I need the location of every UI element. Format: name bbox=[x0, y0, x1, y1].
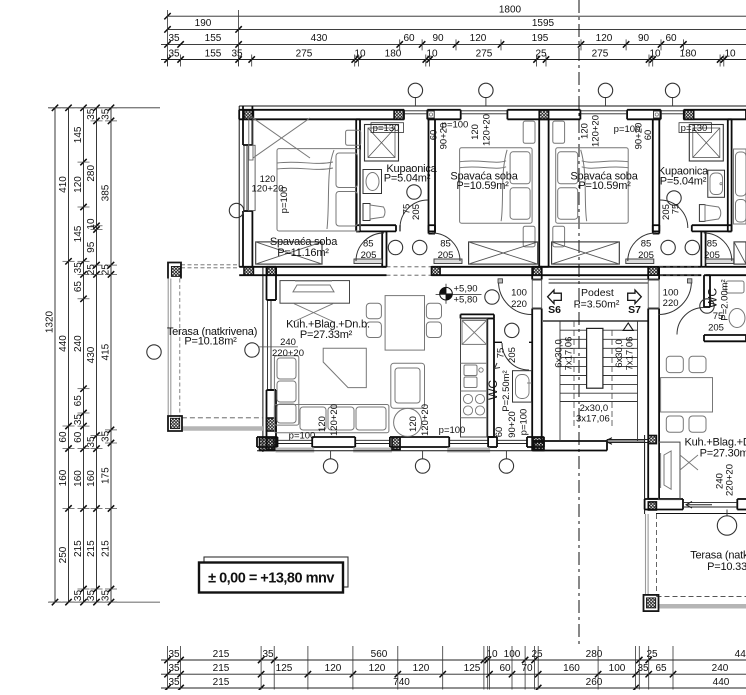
svg-text:100: 100 bbox=[609, 663, 626, 674]
svg-text:35: 35 bbox=[73, 590, 84, 602]
svg-text:120+20: 120+20 bbox=[420, 404, 431, 436]
right unit walls bbox=[645, 275, 746, 513]
svg-text:430: 430 bbox=[311, 33, 328, 44]
svg-text:7x17,06: 7x17,06 bbox=[625, 337, 636, 371]
svg-text:90+20: 90+20 bbox=[507, 411, 518, 438]
svg-text:205: 205 bbox=[708, 323, 724, 334]
column main wall L1 bbox=[244, 267, 253, 275]
svg-text:205: 205 bbox=[661, 204, 672, 220]
svg-text:160: 160 bbox=[58, 469, 69, 486]
wardrobe bed3 bbox=[552, 242, 620, 264]
column main wall stairR bbox=[648, 267, 658, 275]
left exterior wall with bed1 window bbox=[239, 106, 255, 267]
svg-text:205: 205 bbox=[638, 250, 654, 261]
svg-text:35: 35 bbox=[262, 649, 274, 660]
svg-text:35: 35 bbox=[231, 48, 243, 59]
svg-text:6x30,0: 6x30,0 bbox=[614, 339, 625, 368]
svg-text:440: 440 bbox=[713, 677, 730, 688]
svg-text:p=100: p=100 bbox=[279, 187, 290, 214]
svg-text:85: 85 bbox=[363, 238, 374, 249]
kitchen left unit bbox=[461, 318, 488, 437]
svg-text:75: 75 bbox=[496, 348, 507, 359]
bath1 fixtures (shower sink wc) bbox=[363, 125, 399, 221]
column main wall L2 bbox=[267, 267, 276, 275]
svg-text:65: 65 bbox=[73, 395, 84, 407]
svg-text:P=10.59m²: P=10.59m² bbox=[578, 180, 631, 192]
svg-text:S6: S6 bbox=[548, 304, 561, 316]
spot elevation marker bbox=[436, 284, 482, 304]
sofa corner group left bbox=[274, 348, 424, 436]
svg-text:p=100: p=100 bbox=[519, 409, 530, 436]
dining table and chairs right bbox=[661, 356, 713, 432]
svg-text:60: 60 bbox=[73, 431, 84, 443]
arrow S7 bbox=[628, 290, 642, 304]
top band partition walls bbox=[356, 119, 731, 266]
west wall living room with terrace door bbox=[263, 267, 276, 452]
svg-text:85: 85 bbox=[440, 238, 451, 249]
svg-text:P=2.50m²: P=2.50m² bbox=[501, 370, 512, 411]
svg-text:3x17,06: 3x17,06 bbox=[576, 414, 610, 425]
svg-text:P=10.33: P=10.33 bbox=[707, 561, 746, 573]
stair core walls bbox=[532, 267, 659, 514]
svg-text:7x17,06: 7x17,06 bbox=[564, 337, 575, 371]
WC left washbasin bbox=[513, 371, 532, 402]
WC walls left unit bbox=[461, 314, 533, 437]
svg-text:35: 35 bbox=[168, 663, 180, 674]
svg-text:Podest: Podest bbox=[581, 287, 614, 299]
svg-text:220: 220 bbox=[511, 299, 527, 310]
svg-text:280: 280 bbox=[86, 165, 97, 182]
svg-text:120+20: 120+20 bbox=[591, 115, 602, 147]
svg-text:120: 120 bbox=[470, 124, 481, 140]
svg-text:275: 275 bbox=[476, 48, 493, 59]
svg-text:35: 35 bbox=[86, 590, 97, 602]
svg-text:410: 410 bbox=[58, 176, 69, 193]
column main wall stairL bbox=[533, 267, 542, 275]
column stairR bottom2 bbox=[648, 502, 656, 510]
svg-text:120: 120 bbox=[413, 663, 430, 674]
svg-text:35: 35 bbox=[101, 590, 112, 602]
svg-text:120+20: 120+20 bbox=[329, 404, 340, 436]
svg-text:1595: 1595 bbox=[532, 18, 555, 29]
svg-text:205: 205 bbox=[438, 250, 454, 261]
svg-text:90: 90 bbox=[638, 33, 650, 44]
svg-text:35: 35 bbox=[73, 414, 84, 426]
svg-text:440: 440 bbox=[58, 335, 69, 352]
svg-text:1320: 1320 bbox=[45, 310, 56, 333]
svg-text:430: 430 bbox=[86, 346, 97, 363]
svg-text:215: 215 bbox=[213, 677, 230, 688]
svg-text:P=10.59m²: P=10.59m² bbox=[456, 180, 509, 192]
dining table and chairs left bbox=[366, 296, 441, 351]
svg-text:60: 60 bbox=[643, 130, 654, 141]
svg-text:35: 35 bbox=[86, 436, 97, 448]
svg-text:240: 240 bbox=[73, 335, 84, 352]
svg-text:145: 145 bbox=[73, 126, 84, 143]
svg-text:85: 85 bbox=[641, 238, 652, 249]
svg-text:90: 90 bbox=[432, 33, 444, 44]
svg-text:215: 215 bbox=[73, 540, 84, 557]
svg-text:120: 120 bbox=[325, 663, 342, 674]
svg-text:195: 195 bbox=[532, 33, 549, 44]
svg-text:120: 120 bbox=[73, 176, 84, 193]
svg-text:215: 215 bbox=[86, 540, 97, 557]
top dimension chains bbox=[161, 5, 746, 67]
svg-text:215: 215 bbox=[213, 649, 230, 660]
column west wall 1 bbox=[267, 418, 277, 431]
column bath2 window bbox=[684, 110, 694, 119]
svg-text:250: 250 bbox=[58, 546, 69, 563]
svg-text:35: 35 bbox=[86, 108, 97, 120]
svg-text:120: 120 bbox=[470, 33, 487, 44]
column south right bbox=[533, 438, 544, 450]
main interior wall bbox=[239, 267, 746, 275]
svg-text:120: 120 bbox=[596, 33, 613, 44]
svg-text:65: 65 bbox=[655, 663, 667, 674]
svg-text:740: 740 bbox=[393, 677, 410, 688]
svg-text:WC: WC bbox=[486, 380, 500, 400]
svg-text:10: 10 bbox=[86, 218, 97, 230]
svg-text:120: 120 bbox=[317, 416, 328, 432]
column main wall mid bbox=[432, 267, 441, 275]
svg-text:60: 60 bbox=[665, 33, 677, 44]
svg-text:P=10.18m²: P=10.18m² bbox=[184, 335, 237, 347]
svg-text:35: 35 bbox=[101, 108, 112, 120]
svg-text:25: 25 bbox=[535, 48, 547, 59]
svg-text:P=3.50m²: P=3.50m² bbox=[574, 299, 620, 311]
bed 3 bbox=[556, 148, 629, 223]
staircase bbox=[543, 279, 648, 444]
svg-text:35: 35 bbox=[73, 262, 84, 274]
south wall left unit with windows bbox=[257, 437, 544, 453]
terrace right outline bbox=[646, 514, 746, 606]
svg-text:155: 155 bbox=[205, 33, 222, 44]
svg-text:10: 10 bbox=[724, 48, 736, 59]
svg-text:205: 205 bbox=[507, 347, 518, 363]
svg-text:90+20: 90+20 bbox=[438, 123, 449, 150]
nightstands bed2 bbox=[523, 121, 535, 143]
column top-left bbox=[244, 110, 253, 119]
svg-text:70: 70 bbox=[521, 663, 533, 674]
svg-text:120: 120 bbox=[408, 416, 419, 432]
svg-text:65: 65 bbox=[73, 281, 84, 293]
svg-text:385: 385 bbox=[101, 184, 112, 201]
svg-text:± 0,00 = +13,80 mnv: ± 0,00 = +13,80 mnv bbox=[208, 571, 334, 587]
svg-text:75: 75 bbox=[670, 204, 681, 215]
left dimension chains bbox=[45, 105, 161, 606]
svg-text:205: 205 bbox=[361, 250, 377, 261]
svg-text:1800: 1800 bbox=[499, 5, 522, 16]
svg-text:p=100: p=100 bbox=[289, 431, 316, 442]
svg-text:95: 95 bbox=[86, 241, 97, 253]
svg-text:60: 60 bbox=[494, 427, 505, 438]
svg-text:10: 10 bbox=[426, 48, 438, 59]
roller box window bed2 bbox=[428, 111, 434, 118]
svg-text:220+20: 220+20 bbox=[725, 464, 736, 496]
svg-text:260: 260 bbox=[586, 677, 603, 688]
terrace post BL bbox=[168, 416, 182, 431]
svg-text:25: 25 bbox=[101, 264, 112, 276]
svg-text:+5,90: +5,90 bbox=[454, 284, 478, 295]
svg-text:180: 180 bbox=[385, 48, 402, 59]
svg-text:180: 180 bbox=[680, 48, 697, 59]
svg-text:P=5.04m²: P=5.04m² bbox=[384, 173, 431, 185]
svg-text:160: 160 bbox=[86, 470, 97, 487]
svg-text:280: 280 bbox=[586, 649, 603, 660]
svg-text:145: 145 bbox=[73, 225, 84, 242]
svg-text:10: 10 bbox=[354, 48, 366, 59]
svg-text:60: 60 bbox=[58, 431, 69, 443]
svg-text:P=5.04m²: P=5.04m² bbox=[660, 176, 707, 188]
roller box window bed3 bbox=[654, 111, 660, 118]
svg-text:275: 275 bbox=[592, 48, 609, 59]
svg-text:275: 275 bbox=[296, 48, 313, 59]
svg-text:P=27.30m²: P=27.30m² bbox=[700, 448, 746, 460]
svg-text:25: 25 bbox=[646, 649, 658, 660]
wardrobe bed2 bbox=[469, 242, 538, 264]
svg-text:S7: S7 bbox=[628, 304, 641, 316]
svg-text:60: 60 bbox=[499, 663, 511, 674]
terrace left outline bbox=[168, 265, 263, 429]
svg-text:+5,80: +5,80 bbox=[454, 295, 478, 306]
svg-text:35: 35 bbox=[101, 430, 112, 442]
svg-text:100: 100 bbox=[663, 288, 679, 299]
svg-text:10: 10 bbox=[649, 48, 661, 59]
svg-text:35: 35 bbox=[168, 33, 180, 44]
bed 2 bbox=[460, 148, 532, 223]
svg-text:P=11.16m²: P=11.16m² bbox=[277, 247, 329, 259]
svg-text:P=27.33m²: P=27.33m² bbox=[300, 329, 353, 341]
svg-text:560: 560 bbox=[371, 649, 388, 660]
svg-text:175: 175 bbox=[101, 467, 112, 484]
svg-text:205: 205 bbox=[704, 250, 720, 261]
bath2 fixtures bbox=[689, 125, 724, 222]
elevation note box bbox=[199, 557, 348, 593]
WC right fixtures bbox=[726, 281, 745, 328]
svg-text:85: 85 bbox=[707, 238, 718, 249]
centerline axis bbox=[578, 0, 580, 645]
svg-text:220+20: 220+20 bbox=[272, 348, 304, 359]
terrace post BR bbox=[644, 595, 659, 611]
svg-text:120: 120 bbox=[580, 123, 591, 139]
svg-text:215: 215 bbox=[213, 663, 230, 674]
column bath1 window bbox=[394, 110, 404, 119]
svg-text:440: 440 bbox=[735, 649, 746, 660]
bottom dimension chains bbox=[161, 646, 746, 691]
terrace post TL bbox=[168, 263, 181, 279]
svg-text:p=100: p=100 bbox=[439, 425, 466, 436]
svg-text:415: 415 bbox=[101, 343, 112, 360]
bed 4 partial bbox=[734, 149, 746, 224]
top exterior wall with windows bbox=[239, 106, 746, 119]
svg-text:75: 75 bbox=[713, 311, 724, 322]
marker circles bbox=[147, 83, 737, 535]
svg-text:160: 160 bbox=[73, 470, 84, 487]
column stair south bbox=[534, 442, 544, 451]
svg-text:205: 205 bbox=[411, 204, 422, 220]
svg-text:10: 10 bbox=[486, 649, 498, 660]
bed 1 and closet bbox=[249, 117, 361, 231]
svg-text:160: 160 bbox=[563, 663, 580, 674]
svg-text:90+20: 90+20 bbox=[633, 123, 644, 150]
svg-text:220: 220 bbox=[663, 298, 679, 309]
svg-text:35: 35 bbox=[168, 649, 180, 660]
TV sideboard right unit bbox=[659, 442, 698, 500]
svg-text:215: 215 bbox=[101, 540, 112, 557]
svg-text:125: 125 bbox=[276, 663, 293, 674]
column SW corner bbox=[260, 438, 275, 451]
wardrobe bed4 partial bbox=[734, 242, 746, 264]
column south mid bbox=[392, 438, 400, 450]
svg-text:190: 190 bbox=[195, 18, 212, 29]
svg-text:25: 25 bbox=[531, 649, 543, 660]
svg-text:125: 125 bbox=[464, 663, 481, 674]
svg-text:60: 60 bbox=[403, 33, 415, 44]
svg-text:25: 25 bbox=[86, 264, 97, 276]
TV sideboard left unit bbox=[280, 281, 350, 322]
svg-text:155: 155 bbox=[205, 48, 222, 59]
svg-text:35: 35 bbox=[168, 48, 180, 59]
nightstands bed3 bbox=[553, 121, 565, 143]
svg-text:35: 35 bbox=[168, 677, 180, 688]
svg-text:WC: WC bbox=[706, 288, 720, 308]
column west wall 2 bbox=[267, 438, 277, 450]
svg-text:100: 100 bbox=[511, 288, 527, 299]
svg-text:120: 120 bbox=[369, 663, 386, 674]
wardrobe bed1 bbox=[256, 242, 322, 264]
arrow S6 bbox=[548, 290, 562, 304]
svg-text:240: 240 bbox=[280, 337, 296, 348]
svg-text:2x30,0: 2x30,0 bbox=[580, 403, 609, 414]
svg-text:120+20: 120+20 bbox=[481, 114, 492, 146]
doors and swing arcs bbox=[354, 200, 734, 370]
column party wall bbox=[539, 110, 548, 119]
svg-text:240: 240 bbox=[712, 663, 729, 674]
svg-text:Terasa (natk: Terasa (natk bbox=[690, 550, 746, 562]
column stairR bottom1 bbox=[648, 436, 656, 444]
